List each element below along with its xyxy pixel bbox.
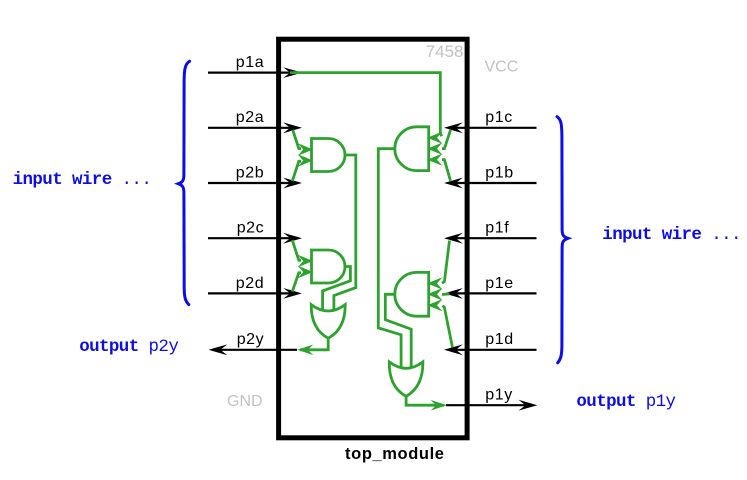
svg-text:GND: GND [227,393,263,410]
wire net p1e to A4 input 2 [442,292,450,295]
wire net p1f to A4 input 1 [442,241,450,284]
pin p1y wire [446,400,537,411]
pin p2d wire [208,288,302,299]
svg-text:p1f: p1f [485,220,509,237]
pin p1a wire [208,67,302,78]
svg-text:input wire ...: input wire ... [13,170,152,190]
wire net A1 output to O1 right input [334,155,356,311]
wire net A4 output to O2 right input [385,294,411,367]
svg-text:p2b: p2b [236,164,265,181]
wire net p2a to A1 input 1 [293,130,301,149]
wire net O2 output to p1y [406,395,444,405]
wire net p2d to A2 input 2 [292,273,301,292]
right input brace [557,117,568,363]
svg-text:p1e: p1e [485,275,514,292]
OR gate O2 (p1y) [389,362,423,396]
svg-text:p2a: p2a [236,109,265,126]
svg-text:p1d: p1d [485,331,514,348]
pin p2y wire [209,344,298,355]
wire net p1b to A3 input 3 [442,160,451,181]
OR gate O1 (p2y) [311,305,345,339]
wire net p2c to A2 input 1 [292,240,301,260]
svg-text:p1c: p1c [485,109,513,126]
svg-text:output p2y: output p2y [79,337,178,357]
left input brace [178,61,189,304]
pin p2a wire [208,122,302,133]
svg-text:p1y: p1y [485,387,513,404]
wire net O1 output to p2y [300,337,328,350]
wire net A2 output to O1 left input [323,267,351,311]
AND gate A2 (p2c,p2d) [312,250,346,283]
AND gate A4 (p1f,p1e,p1d) [395,272,429,316]
svg-text:p2d: p2d [236,275,265,292]
svg-text:p2c: p2c [237,220,265,237]
pin p2c wire [208,233,302,244]
svg-text:7458: 7458 [426,42,464,61]
pin p1f wire [444,233,537,244]
pin p1c wire [444,122,537,133]
svg-text:p1b: p1b [485,164,514,181]
svg-text:p1a: p1a [236,54,265,71]
AND gate A3 (p1a,p1c,p1b) [395,127,429,171]
svg-text:output p1y: output p1y [576,392,675,412]
svg-text:p2y: p2y [237,331,265,348]
svg-text:top_module: top_module [345,445,445,463]
pin p2b wire [208,178,302,189]
wire net p1d to A4 input 3 [443,306,453,348]
wire net p1c to A3 input 2 [442,130,451,149]
wire net A3 output to O2 left input [378,149,401,368]
svg-text:input wire ...: input wire ... [602,225,741,245]
AND gate A1 (p2a,p2b) [312,139,346,172]
pin p1b wire [444,178,537,189]
pin p1e wire [444,288,537,299]
pin p1d wire [444,344,537,355]
chip body U1 top_module (7458) [279,39,468,438]
wire net p2b to A1 input 2 [292,161,301,181]
svg-text:VCC: VCC [485,58,519,75]
wire net p1a to A3 input 1 [290,73,442,137]
